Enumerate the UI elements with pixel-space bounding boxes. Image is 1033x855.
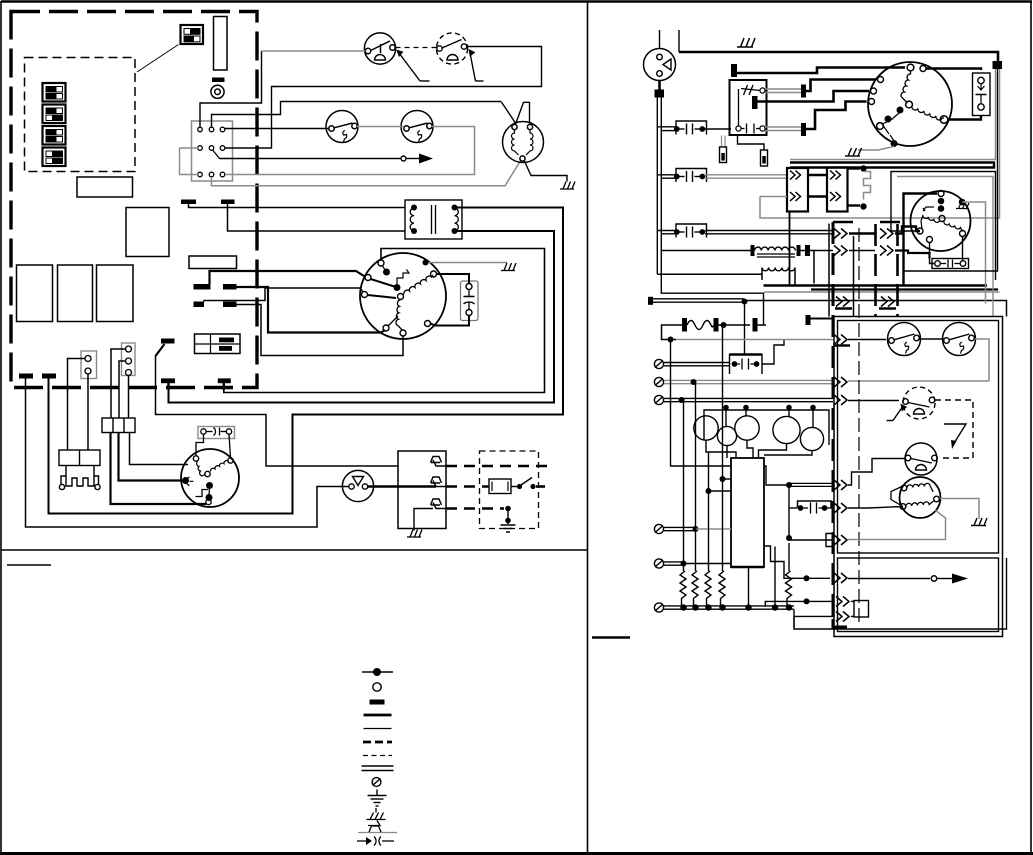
field wiring dashed box <box>480 451 539 529</box>
wire from bar E down to gas valve row <box>26 379 350 528</box>
dip switch bank SW5 <box>43 148 66 167</box>
terminal bars and wires to blower motor <box>194 271 404 356</box>
plug row 2 (to heat relay boxes) <box>657 169 706 183</box>
dashed field wires row1 <box>446 465 551 468</box>
gas valve solenoid right <box>891 477 941 518</box>
leader line to dip switch <box>137 45 179 73</box>
dropper resistors <box>680 325 792 608</box>
output wire <box>762 340 784 365</box>
igniter cartridge 1 <box>720 136 727 163</box>
plug row 1 (to relay) <box>657 121 731 135</box>
legend terminal bar <box>370 700 385 705</box>
connector column verticals below heater <box>829 224 898 317</box>
gray return wire from LS2 to pin r3c3 <box>225 127 475 175</box>
component strip (tall rectangle) <box>214 17 228 71</box>
LED indicator (double circle) <box>211 85 224 98</box>
terminal bar F left <box>42 374 56 379</box>
connector brackets above row 233 <box>833 221 900 224</box>
bar C2 <box>223 284 237 290</box>
door switch wire to gas valve <box>156 355 399 466</box>
wire rollout to chevron 485 <box>848 459 905 486</box>
bracket <box>891 486 904 507</box>
wire motor top pin loop <box>224 249 545 393</box>
label box (model plate) <box>77 177 133 197</box>
bold wire gas valve to limit box <box>368 485 436 487</box>
step glyph <box>196 490 209 497</box>
screw SEC-5 row 563 <box>654 559 731 568</box>
flame sensor block <box>59 450 100 490</box>
blower motor right BLWM2 <box>868 62 952 147</box>
terminal bar E left <box>19 374 33 379</box>
feed drop x814 <box>813 251 815 284</box>
gray frame line inducer <box>897 177 993 317</box>
circuit breaker row <box>662 318 767 340</box>
gray return from limits <box>975 339 990 381</box>
chassis ground mid <box>845 148 862 156</box>
screw SEC-4 row 529 <box>654 524 731 533</box>
board bottom drops <box>748 567 750 608</box>
vertical link with dots <box>788 485 790 540</box>
gray return y292 <box>764 291 1000 293</box>
bar C4 <box>223 302 237 308</box>
wires from plugs down <box>68 349 129 450</box>
leads to igniter circle <box>196 435 204 456</box>
blower motor BLWM <box>360 253 446 339</box>
door switch bar <box>161 339 175 344</box>
chassis ground inducer <box>560 182 575 190</box>
diagonals from left pins <box>371 279 397 287</box>
horizontal winding <box>912 106 944 120</box>
terminal bar above LED <box>212 78 225 83</box>
heat sequencer box 2 <box>827 168 848 212</box>
junction square right <box>993 61 1003 69</box>
feed from dot above <box>744 302 746 355</box>
arrow to rollout contact <box>887 404 908 421</box>
wire: optional switch loop <box>225 47 542 149</box>
panel divider horizontal left <box>1 549 588 551</box>
bold U wire heater feed <box>790 163 994 168</box>
run capacitor CAP <box>461 281 479 321</box>
inner upper enclosure box <box>838 321 999 554</box>
primary winding <box>410 208 414 231</box>
wire: secondary top to door switch loop <box>49 208 564 514</box>
hat symbol 2 <box>431 477 447 487</box>
bold bar secondary to heat bus <box>806 315 834 325</box>
motor capacitor right <box>973 73 991 116</box>
legend plug connector <box>357 837 394 846</box>
transformer secondary coil <box>762 212 795 286</box>
legend limit hat symbol <box>358 821 397 833</box>
gray return from solenoid <box>848 510 946 540</box>
vertical winding <box>901 71 910 103</box>
right winding <box>526 130 533 155</box>
notes underline right <box>592 636 630 638</box>
heater element comb <box>848 165 871 209</box>
limit switch LS2 <box>401 111 433 143</box>
gray wire from sequencer lower to return <box>760 196 787 198</box>
legend junction dot <box>362 668 393 676</box>
capacitor bank rect 1 <box>17 265 53 322</box>
furnace cabinet bold dashed box <box>11 12 257 388</box>
igniter bracket castle <box>61 466 99 487</box>
wire motor to capacitor bottom <box>431 316 470 326</box>
notes underline left <box>7 564 51 566</box>
main limit switch right LS3 <box>888 323 921 356</box>
chevron rows 601/616 with jumper <box>765 597 868 628</box>
double supply wires down left <box>657 98 763 326</box>
gas valve circle GV <box>342 470 373 501</box>
pressure switch PRS-2 (optional, dashed) <box>436 33 467 64</box>
chevron row 578 and anticipator <box>764 546 968 584</box>
screw SEC-6 row 607 bus <box>654 603 794 612</box>
gray limit feed row 339 <box>668 335 887 346</box>
24v connector blocks <box>81 343 135 379</box>
wire capacitor bottom to motor <box>948 116 981 120</box>
terminal bar4 and wire to motor pin4 <box>801 102 867 137</box>
wire: connector pin r1c2 to inducer motor tops <box>212 102 530 128</box>
quick connect bar to transformer primary bottom <box>221 200 405 232</box>
heat sequencer box 1 <box>787 168 808 212</box>
bar C3 <box>194 302 205 308</box>
wire motor to capacitor top <box>437 274 470 284</box>
terminal bar2 and wire to motor pin2 <box>801 80 876 98</box>
bulb leads to board <box>706 440 736 458</box>
interior dots <box>384 269 390 275</box>
arrow to pressure switch contact <box>396 50 429 82</box>
solenoid ground wire <box>940 499 980 520</box>
bold links between sequencer boxes <box>808 175 827 197</box>
legend bold dashed <box>363 741 392 744</box>
voltage table <box>195 334 241 354</box>
legend thin line <box>364 728 392 730</box>
terminal bar3 and wire to motor pin3 <box>752 91 869 109</box>
hat symbol 3 <box>431 499 447 509</box>
9-pin connector PL1 <box>192 121 233 181</box>
secondary winding <box>455 208 459 231</box>
inducer motor ground lead <box>524 160 567 182</box>
flame rollout switch dashed FRS1 <box>903 387 935 419</box>
dashed link between pressure switches <box>396 47 438 49</box>
chassis ground solenoid <box>971 518 987 526</box>
coils <box>907 483 933 492</box>
mini chassis ground <box>956 203 969 209</box>
bold feed line y289 <box>811 288 998 290</box>
bold L1 feed wire top <box>679 30 998 62</box>
gas valve limit box <box>398 451 446 531</box>
internal switch glyph <box>383 266 410 284</box>
spark igniter module circle <box>181 449 239 507</box>
resistor col 1 <box>680 400 686 608</box>
gray wire motor NE dot to ground <box>426 262 508 264</box>
neutral row to secondary <box>657 273 762 275</box>
door switch blade <box>156 344 165 356</box>
gray wire pin r3c2 to inducer motor bottom <box>212 160 522 186</box>
capacitor bank rect 2 <box>58 265 93 322</box>
hot surface relay box <box>730 80 767 135</box>
wire: pin r1c3 to limit switch <box>225 128 329 130</box>
winding horizontal <box>404 275 433 295</box>
screw SEC-1 <box>654 359 729 368</box>
quick connect bar to transformer primary top <box>181 200 405 208</box>
chassis ground at blower <box>501 263 516 271</box>
terminal bar A on dashed line <box>161 378 175 383</box>
humidifier terminal box <box>730 302 785 375</box>
dip switch bank SW3 <box>43 105 66 124</box>
left winding <box>512 130 519 155</box>
dip switch bank SW2 <box>43 83 66 102</box>
dot link <box>208 486 211 498</box>
2-pin plug <box>81 351 97 379</box>
core lines <box>431 205 433 234</box>
flame rollout switch solid FRS2 <box>905 443 937 475</box>
dashed field wires row3 with earth ground <box>446 506 516 532</box>
dip switch bank SW4 <box>43 126 66 145</box>
spark gap plug box <box>198 427 235 439</box>
gray wire motor bottom to ground <box>858 147 894 151</box>
aux limit switch right LS4 <box>943 323 976 356</box>
bold feed line y285 <box>764 284 988 287</box>
dip switch SW1 (top) <box>181 25 204 44</box>
legend screw terminal <box>372 778 381 787</box>
resistor col 4 <box>719 325 725 608</box>
wire motor top to capacitor <box>926 69 981 71</box>
control board right <box>731 458 764 567</box>
big arrow glyph <box>944 424 966 449</box>
hat symbol 1 <box>431 457 447 467</box>
3-pin plug <box>122 343 136 376</box>
internal wire hat3 to ground <box>414 509 433 531</box>
terminal bar row y304 <box>648 297 1007 317</box>
legend chassis ground <box>367 808 386 820</box>
wire: connector pin r1c1 to pressure switch <box>200 51 365 127</box>
arrow wire from pin r2c2 <box>220 154 434 164</box>
pin jumper blade <box>213 151 220 159</box>
resistor col 2 <box>692 382 698 608</box>
inner lower enclosure box <box>838 558 999 632</box>
chevron row 540 <box>789 534 847 547</box>
chassis ground top <box>737 38 755 47</box>
legend earth ground <box>368 790 387 807</box>
flame sensor glyph <box>186 477 193 486</box>
gray pair relay bottom to bar4 <box>765 127 801 131</box>
bus tail to right <box>794 558 1007 629</box>
chassis ground below limit box <box>407 530 422 538</box>
capacitor bank rect 3 <box>97 265 134 322</box>
bus junction dots <box>680 604 792 610</box>
3-cell connector box <box>102 418 135 433</box>
chevron row 508 <box>786 485 903 541</box>
thermostat bulbs assembly <box>694 405 829 458</box>
wire: secondary bottom to terminal A <box>169 231 555 403</box>
switch glyph <box>882 113 899 140</box>
switch glyph <box>923 207 934 211</box>
junction box rectangle <box>126 208 169 257</box>
outer enclosure box right <box>834 317 1003 637</box>
arrow to optional pressure switch <box>469 49 484 81</box>
dashed cabinet boundary right <box>833 222 859 627</box>
fuse and switch row2 <box>446 478 550 494</box>
chevron row 485 <box>764 466 847 490</box>
chevron row 233 <box>834 227 920 239</box>
transformer TRAN <box>405 200 462 239</box>
panel divider vertical <box>587 1 589 854</box>
resistor col 3 <box>705 452 711 608</box>
label box right <box>189 256 237 269</box>
screw SEC-2 row 382 <box>654 377 989 387</box>
bar C1 <box>194 284 211 290</box>
plug row 3 (inducer supply) <box>657 224 833 238</box>
control center inner dashed box <box>25 58 136 172</box>
chevron row 250 <box>834 246 930 259</box>
terminal bar1 and wire to motor top <box>731 64 905 77</box>
windings <box>921 215 940 229</box>
legend thick line <box>364 714 392 717</box>
wires from 3-cell box to igniter <box>111 433 207 505</box>
legend double line <box>362 766 394 771</box>
inducer feed bold <box>904 194 938 287</box>
wire between limits <box>920 338 945 340</box>
cap leads <box>930 243 935 264</box>
wire between limit switches <box>357 126 404 128</box>
dashed option jumper box <box>935 400 973 458</box>
U wire joining pins left <box>180 148 199 175</box>
winding vertical <box>396 300 402 330</box>
screw SEC-3 row 400 <box>654 395 899 405</box>
wire IDM left pin to frame <box>891 172 996 281</box>
igniter cartridge 2 <box>738 135 768 166</box>
limit switch LS1 <box>326 111 358 143</box>
thin neutral vertical right <box>904 69 998 271</box>
pressure switch PRS (solid) <box>364 33 395 64</box>
legend open circle <box>373 683 381 691</box>
gray return verticals right side <box>760 69 1000 218</box>
resistor col 5 <box>786 543 792 608</box>
terminal bar B on dashed line <box>218 378 231 383</box>
inducer motor right IDM2 <box>911 191 971 252</box>
door switch and terminal bars on dashed line <box>19 339 398 528</box>
wires into board left <box>671 340 732 495</box>
gray wire IDM dot to return <box>962 202 986 304</box>
inducer capacitor strip <box>930 237 969 269</box>
junction square below gas valve <box>655 81 665 98</box>
spark windings <box>197 462 206 476</box>
legend thin dashed <box>363 755 392 757</box>
transformer terminal dots <box>411 205 458 235</box>
choke / transformer primary row <box>661 245 833 257</box>
gas valve circle right GV2 <box>644 30 676 81</box>
gray pair relay top to bar2 <box>765 89 801 93</box>
inducer motor IDM <box>503 122 544 163</box>
